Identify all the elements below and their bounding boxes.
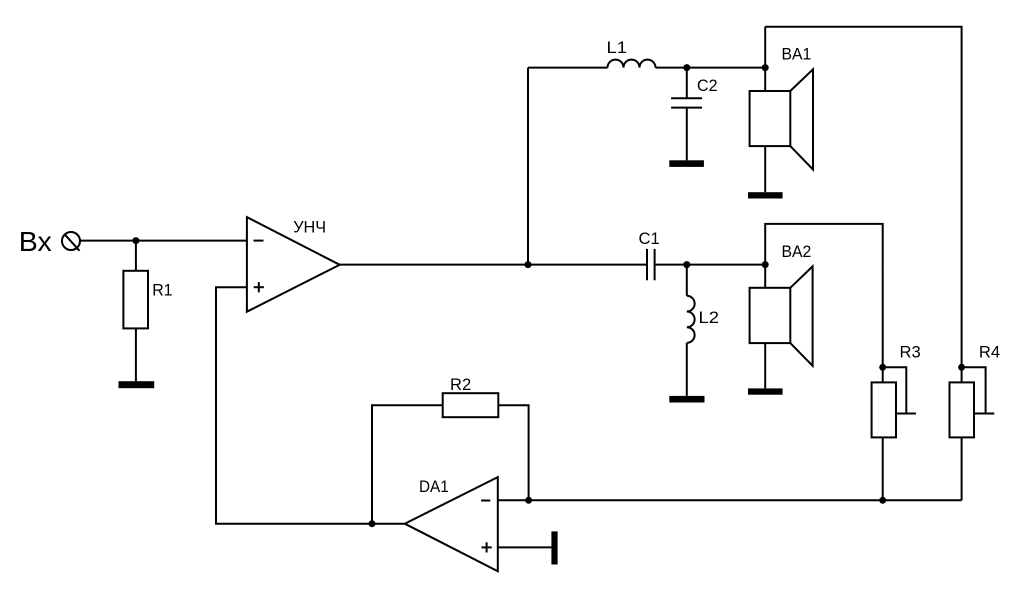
svg-text:R4: R4 bbox=[979, 343, 1000, 362]
svg-text:Вх: Вх bbox=[19, 226, 52, 257]
svg-text:BA2: BA2 bbox=[782, 242, 812, 261]
svg-text:BA1: BA1 bbox=[782, 44, 812, 63]
svg-text:L2: L2 bbox=[699, 308, 720, 327]
svg-text:C1: C1 bbox=[639, 229, 660, 248]
svg-text:R1: R1 bbox=[152, 280, 172, 299]
svg-text:R2: R2 bbox=[450, 375, 471, 394]
svg-text:УНЧ: УНЧ bbox=[293, 217, 326, 236]
svg-text:DA1: DA1 bbox=[419, 477, 449, 496]
svg-text:L1: L1 bbox=[607, 38, 628, 57]
svg-text:R3: R3 bbox=[900, 343, 921, 362]
svg-text:C2: C2 bbox=[697, 76, 718, 95]
